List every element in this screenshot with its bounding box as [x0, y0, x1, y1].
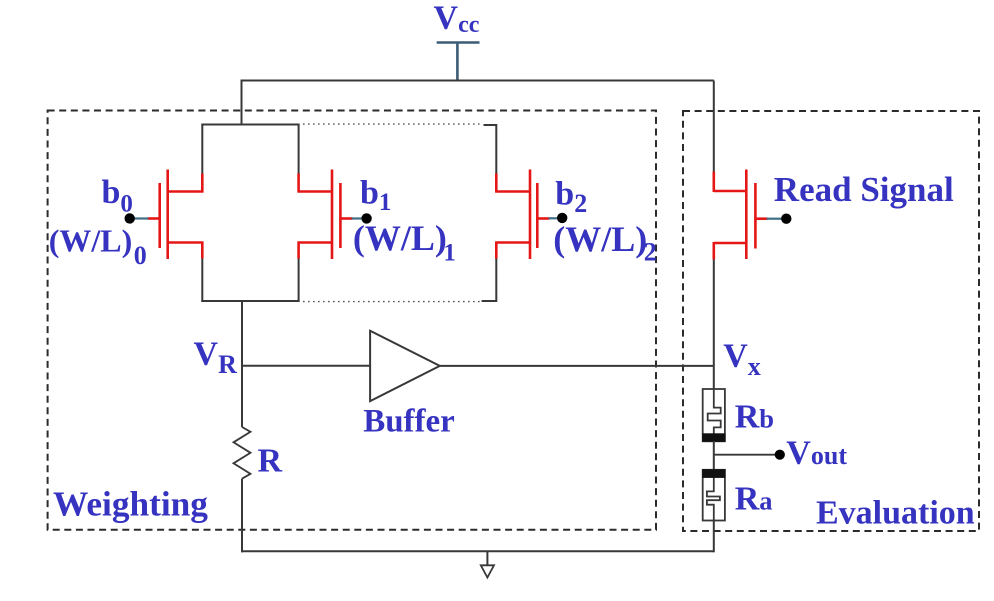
node Vout dot	[775, 450, 785, 460]
svg-text:Rb: Rb	[735, 398, 774, 435]
dotted expansion line bottom	[303, 301, 481, 303]
svg-text:Read Signal: Read Signal	[774, 170, 954, 209]
wire: b2 gate lead	[549, 217, 558, 219]
wire: read gate lead	[767, 218, 782, 220]
svg-text:Evaluation: Evaluation	[816, 495, 975, 532]
wire: left drop to transistor block	[241, 80, 243, 126]
svg-text:Buffer: Buffer	[363, 404, 455, 440]
wire: Vout tap	[714, 454, 780, 456]
wire: resistor to ground rail	[241, 479, 243, 553]
op-amp buffer U1	[370, 331, 440, 401]
svg-text:R: R	[258, 443, 283, 480]
transistor Q1 (b1)	[298, 170, 353, 260]
wire: between Rb and Ra	[713, 441, 715, 470]
wire: Ra to ground rail	[713, 521, 715, 553]
node b1 gate dot	[361, 213, 371, 223]
wire: VR drop from bottom rail	[241, 301, 243, 367]
transistor Q3 (read)	[714, 170, 768, 260]
memristor Rb	[703, 389, 725, 441]
wire: b0 source rail lower	[201, 258, 203, 303]
Vcc power symbol	[437, 43, 480, 81]
wire: read transistor to Vx and Rb	[713, 258, 715, 390]
transistor Q0 (b0)	[148, 170, 204, 260]
wire: transistor block bottom rail	[201, 300, 299, 302]
node b2 gate dot	[557, 213, 567, 223]
evaluation box (dashed)	[683, 111, 979, 531]
wire: b1 source rail lower	[298, 258, 300, 303]
wire: VR to buffer input	[241, 365, 370, 367]
wire: top rail from Vcc	[242, 80, 714, 82]
wire: right drop from top rail to read transistor	[713, 81, 715, 175]
svg-text:Vout: Vout	[786, 434, 847, 471]
svg-text:Weighting: Weighting	[53, 485, 208, 524]
transistor Q2 (b2)	[495, 170, 549, 260]
svg-text:Ra: Ra	[735, 481, 773, 518]
weighting box (dashed)	[48, 111, 656, 530]
wire: VR down to resistor	[241, 366, 243, 427]
wire: b0 gate lead	[135, 217, 149, 219]
node b0 gate dot	[125, 213, 135, 223]
wire: b2 source rail lower + corner	[482, 258, 498, 302]
wire: bottom ground rail	[241, 550, 714, 552]
wire: b0 drain rail upper	[201, 125, 203, 175]
memristor Ra	[703, 470, 725, 521]
wire: b1 gate lead	[352, 217, 363, 219]
resistor R zigzag	[234, 427, 251, 479]
ground	[486, 551, 488, 565]
dotted expansion line top	[303, 123, 480, 125]
wire: buffer output to Vx	[440, 365, 714, 367]
wire: b2 corner top	[484, 124, 497, 175]
wire: transistor block top rail	[201, 124, 299, 126]
node read gate dot	[781, 214, 791, 224]
wire: b1 drain rail upper	[298, 125, 300, 175]
